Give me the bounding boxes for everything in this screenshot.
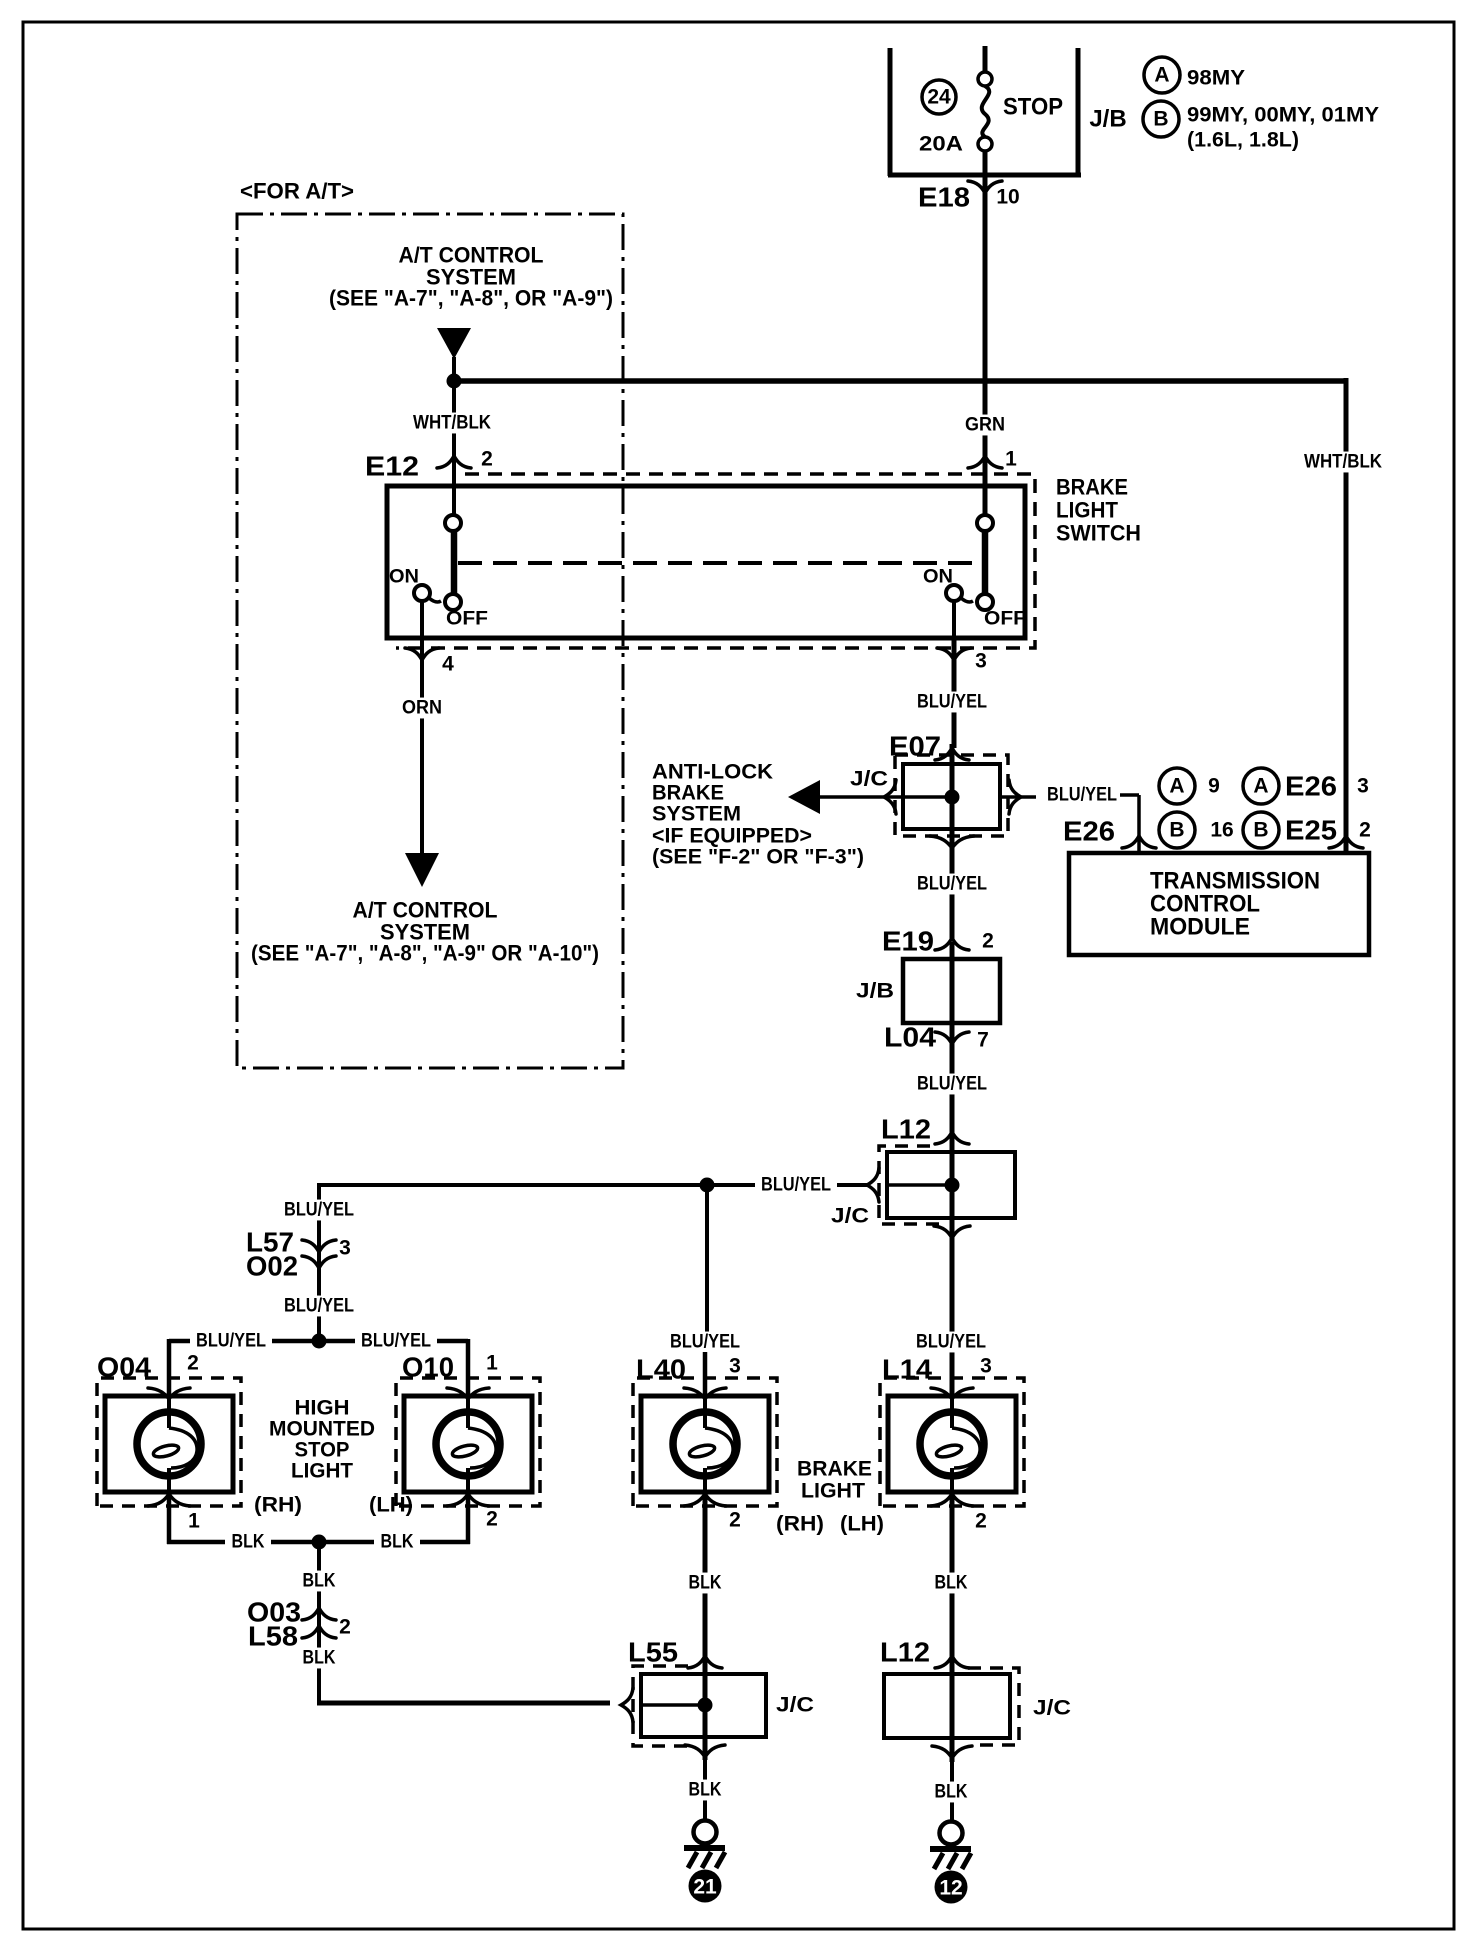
label BLK O10 — [374, 1532, 420, 1553]
wire L55 to ground — [703, 1760, 707, 1822]
connector TCM pin A9 B16 — [1122, 836, 1156, 848]
switch left pole ON contact — [414, 585, 430, 601]
svg-text:BLU/YEL: BLU/YEL — [284, 1200, 354, 1221]
junction connector E07 box — [903, 764, 1000, 829]
svg-text:MOUNTED: MOUNTED — [269, 1418, 375, 1441]
svg-text:BLU/YEL: BLU/YEL — [670, 1332, 740, 1353]
svg-text:BLK: BLK — [689, 1780, 722, 1801]
connector E12 pin 1 — [968, 456, 1002, 468]
wire L12 to ground 12 — [950, 1762, 954, 1823]
svg-text:SWITCH: SWITCH — [1056, 521, 1141, 546]
svg-text:3: 3 — [729, 1355, 741, 1378]
switch right pole lever — [982, 531, 989, 595]
label ORN — [397, 698, 447, 719]
junction block J/B box — [903, 959, 1000, 1023]
wire fuse feed — [983, 46, 988, 72]
svg-text:BLU/YEL: BLU/YEL — [761, 1175, 831, 1196]
connector O04 pin 1 — [148, 1494, 190, 1506]
svg-text:STOP: STOP — [295, 1439, 350, 1462]
connector O10 pin 2 — [447, 1494, 489, 1506]
svg-text:2: 2 — [187, 1352, 199, 1375]
svg-text:<FOR A/T>: <FOR A/T> — [240, 179, 354, 204]
lamp O10 high mounted stop light LH — [404, 1396, 532, 1492]
node L12 junction dot — [945, 1178, 960, 1193]
junction connector L12 bottom box — [884, 1674, 1010, 1738]
wire L55 horizontal stub — [641, 1703, 705, 1707]
svg-text:16: 16 — [1210, 819, 1233, 842]
wire junction to right corner — [454, 378, 1348, 384]
svg-text:2: 2 — [975, 1510, 987, 1533]
legend circled A E26 — [1243, 768, 1279, 804]
label BLK L40 — [682, 1573, 728, 1594]
connector E18 pin 10 — [968, 181, 1002, 193]
junction block J/B fuse box — [888, 48, 893, 176]
wire through J/B — [950, 942, 955, 1044]
svg-text:3: 3 — [980, 1355, 992, 1378]
node HMSL junction dot — [312, 1334, 327, 1349]
svg-text:20A: 20A — [919, 133, 963, 156]
svg-text:WHT/BLK: WHT/BLK — [413, 413, 491, 434]
svg-text:L14: L14 — [882, 1354, 932, 1385]
wire ORN — [420, 638, 424, 856]
svg-text:(RH): (RH) — [254, 1494, 302, 1517]
svg-text:4: 4 — [442, 653, 454, 676]
wire drop to L57 — [317, 1183, 321, 1341]
svg-text:(RH): (RH) — [776, 1513, 824, 1536]
connector E07 pin bottom — [930, 836, 974, 848]
svg-text:99MY, 00MY, 01MY: 99MY, 00MY, 01MY — [1187, 104, 1379, 127]
wire drop to O10 — [466, 1339, 471, 1398]
svg-text:3: 3 — [339, 1237, 351, 1260]
svg-text:L40: L40 — [636, 1354, 686, 1385]
connector E07 pin top — [935, 748, 969, 760]
connector E19 pin 2 — [935, 938, 969, 950]
label BLU/YEL 6 — [278, 1296, 360, 1317]
svg-text:L12: L12 — [881, 1114, 931, 1145]
svg-text:3: 3 — [975, 650, 987, 673]
label BLU/YEL O10 — [355, 1331, 437, 1352]
svg-text:2: 2 — [339, 1616, 351, 1639]
svg-text:E18: E18 — [918, 182, 970, 213]
wire BLU/YEL distribution — [319, 1183, 868, 1187]
ground point 21 — [689, 1870, 722, 1903]
junction connector L12 dashed outline — [879, 1146, 940, 1224]
label BLU/YEL O04 — [190, 1331, 272, 1352]
svg-text:7: 7 — [977, 1029, 989, 1052]
svg-text:10: 10 — [996, 186, 1019, 209]
wire drop to O04 — [167, 1339, 172, 1398]
junction connector L55 box — [641, 1674, 766, 1737]
lamp O04 high mounted stop light RH — [105, 1396, 233, 1492]
svg-text:BLK: BLK — [303, 1648, 336, 1669]
wire O04 to BLK junction — [167, 1492, 172, 1544]
svg-text:J/B: J/B — [856, 980, 894, 1003]
svg-text:ORN: ORN — [402, 698, 442, 719]
svg-text:1: 1 — [188, 1510, 200, 1533]
svg-text:98MY: 98MY — [1187, 67, 1245, 90]
svg-text:BRAKE: BRAKE — [797, 1458, 872, 1481]
svg-text:OFF: OFF — [446, 609, 488, 630]
label BLU/YEL 3 — [911, 1074, 993, 1095]
svg-text:LIGHT: LIGHT — [1056, 498, 1119, 523]
connector TCM pin 2/3 — [1329, 836, 1363, 848]
wire BLK junction to O03 — [317, 1542, 321, 1705]
connector L04 pin 7 — [935, 1032, 969, 1044]
connector O10 pin 1 — [447, 1388, 489, 1399]
label BLU/YEL L40 — [664, 1332, 746, 1353]
ground point 12 — [935, 1871, 968, 1904]
svg-text:L55: L55 — [628, 1637, 678, 1668]
svg-text:24: 24 — [927, 86, 951, 109]
legend circled B 16 — [1159, 812, 1195, 848]
connector E12 pin 2 — [437, 456, 471, 468]
legend circled B E25 — [1243, 812, 1279, 848]
svg-text:ON: ON — [389, 567, 419, 588]
svg-text:1: 1 — [1005, 448, 1017, 471]
junction connector L12 box — [887, 1152, 1015, 1218]
ground symbol 21 — [694, 1821, 717, 1844]
legend circled A 98MY — [1144, 57, 1180, 93]
svg-text:E07: E07 — [889, 731, 941, 762]
svg-text:J/C: J/C — [1033, 1697, 1071, 1720]
svg-text:1: 1 — [486, 1352, 498, 1375]
svg-text:2: 2 — [486, 1508, 498, 1531]
svg-text:E19: E19 — [882, 926, 934, 957]
label BLK L14 — [928, 1573, 974, 1594]
svg-text:21: 21 — [693, 1876, 717, 1899]
svg-text:L12: L12 — [880, 1637, 930, 1668]
svg-text:J/C: J/C — [831, 1205, 869, 1228]
brake light switch dashed outline — [396, 474, 1035, 648]
label BLU/YEL 5 — [278, 1200, 360, 1221]
svg-text:BLK: BLK — [232, 1532, 265, 1553]
wire junction down to E12 pin 2 — [452, 381, 456, 516]
arrow from A/T control system — [437, 328, 471, 359]
svg-text:GRN: GRN — [965, 415, 1005, 436]
wire ON right to pin 3 — [952, 601, 956, 640]
svg-text:HIGH: HIGH — [295, 1397, 350, 1420]
svg-text:BLU/YEL: BLU/YEL — [917, 874, 987, 895]
svg-text:O02: O02 — [246, 1251, 298, 1282]
switch right pole ON contact — [946, 585, 962, 601]
svg-text:2: 2 — [982, 930, 994, 953]
wire ON left to pin 4 — [420, 601, 424, 640]
svg-text:A: A — [1154, 64, 1169, 87]
svg-text:A: A — [1169, 775, 1184, 798]
svg-text:2: 2 — [481, 448, 493, 471]
svg-text:ANTI-LOCK: ANTI-LOCK — [652, 761, 773, 784]
connector L12 bottom pin top — [935, 1656, 969, 1668]
label WHT/BLK right — [1299, 452, 1387, 473]
switch right pole contact top — [977, 515, 993, 531]
wire L40 to L55 — [703, 1492, 708, 1660]
svg-text:(LH): (LH) — [840, 1513, 884, 1536]
switch left pole lever — [451, 531, 458, 595]
svg-text:B: B — [1169, 819, 1184, 842]
label BLU/YEL 2 — [911, 874, 993, 895]
svg-text:BRAKE: BRAKE — [652, 782, 724, 805]
wire BLK horizontal to L55 — [317, 1701, 610, 1706]
wire BLU/YEL to TCM — [1120, 793, 1139, 797]
connector E12 pin 4 — [420, 638, 424, 648]
svg-text:E25: E25 — [1285, 815, 1337, 846]
svg-text:2: 2 — [1359, 819, 1371, 842]
label BLK ground 12 — [928, 1782, 974, 1803]
svg-text:12: 12 — [939, 1877, 962, 1900]
arrow to anti-lock brake system — [788, 780, 820, 814]
svg-text:STOP: STOP — [1003, 94, 1063, 121]
svg-text:BLK: BLK — [689, 1573, 722, 1594]
brake light switch box — [387, 486, 1025, 638]
switch right pole OFF contact — [977, 594, 993, 610]
svg-text:LIGHT: LIGHT — [801, 1480, 865, 1503]
svg-text:L58: L58 — [248, 1621, 298, 1652]
arrow to A/T control system — [405, 853, 439, 887]
wire through L12 vertical — [950, 1136, 955, 1240]
node BLK junction dot — [312, 1535, 327, 1550]
switch left pole contact top — [445, 515, 461, 531]
connector L14 pin 3 — [931, 1388, 973, 1399]
svg-text:BRAKE: BRAKE — [1056, 475, 1128, 500]
connector L12 bottom pin bottom — [932, 1746, 972, 1758]
connector L57/O02 pin 3 — [302, 1240, 336, 1252]
wire through E07 vertical — [950, 744, 955, 849]
wire E07 horizontal — [820, 795, 952, 799]
wire WHT/BLK right drop — [1344, 378, 1349, 853]
svg-text:2: 2 — [729, 1509, 741, 1532]
wire L12 to L14 — [950, 1240, 955, 1398]
label BLU/YEL L14 — [910, 1332, 992, 1353]
legend circled A 9 — [1159, 768, 1195, 804]
svg-text:J/C: J/C — [776, 1694, 814, 1717]
svg-text:BLU/YEL: BLU/YEL — [1047, 785, 1117, 806]
svg-text:ON: ON — [923, 567, 953, 588]
connector O03/L58 pin 2 — [302, 1608, 336, 1620]
label BLK 1 — [296, 1571, 342, 1592]
connector L55 left terminal — [621, 1688, 633, 1722]
wire BLU/YEL L04 to L12 — [950, 1044, 955, 1136]
svg-text:B: B — [1253, 819, 1268, 842]
connector E07 right terminal — [1009, 780, 1021, 814]
connector E07 left terminal — [884, 780, 896, 814]
legend circled B 99MY — [1143, 101, 1179, 137]
node E07 junction dot — [945, 790, 960, 805]
svg-text:BLU/YEL: BLU/YEL — [917, 692, 987, 713]
connector L12 pin top — [935, 1132, 969, 1144]
connector L12 pin bottom — [934, 1226, 970, 1238]
svg-text:OFF: OFF — [984, 609, 1026, 630]
svg-text:MODULE: MODULE — [1150, 914, 1250, 941]
svg-text:BLK: BLK — [935, 1782, 968, 1803]
wire arrow to junction — [452, 357, 456, 382]
label BLK 2 — [296, 1648, 342, 1669]
node junction WHT/BLK — [447, 374, 462, 389]
svg-text:(SEE "A-7", "A-8", OR "A-9"): (SEE "A-7", "A-8", OR "A-9") — [329, 286, 613, 311]
wire HMSL horizontal — [169, 1339, 319, 1344]
fuse STOP 20A symbol — [978, 72, 992, 86]
node junction to L40 — [700, 1178, 715, 1193]
svg-text:BLK: BLK — [303, 1571, 336, 1592]
svg-text:(SEE "F-2" OR "F-3"): (SEE "F-2" OR "F-3") — [652, 846, 864, 869]
svg-text:E12: E12 — [365, 451, 419, 482]
wire through L55 vertical — [703, 1660, 708, 1760]
connector L12 left terminal — [867, 1168, 879, 1202]
wire O10 to BLK junction — [466, 1492, 471, 1544]
svg-text:(LH): (LH) — [369, 1494, 413, 1517]
connector L40 pin 3 — [684, 1388, 726, 1399]
svg-text:BLU/YEL: BLU/YEL — [196, 1331, 266, 1352]
svg-text:L04: L04 — [884, 1022, 936, 1053]
junction connector L12 bottom dashed outline — [968, 1668, 1019, 1745]
wire L14 to L12 jc — [950, 1492, 955, 1660]
ground symbol 12 — [940, 1822, 963, 1845]
svg-text:SYSTEM: SYSTEM — [652, 803, 741, 826]
svg-text:J/C: J/C — [850, 768, 888, 791]
fuse 24 circled number — [922, 80, 956, 114]
svg-text:WHT/BLK: WHT/BLK — [1304, 452, 1382, 473]
wire L12 horizontal branch — [887, 1183, 952, 1187]
svg-text:E26: E26 — [1063, 816, 1115, 847]
transmission control module box — [1069, 853, 1369, 955]
svg-text:<IF EQUIPPED>: <IF EQUIPPED> — [652, 825, 812, 848]
wire BLU/YEL switch to E07 — [952, 638, 957, 748]
svg-text:B: B — [1153, 108, 1168, 131]
label WHT/BLK left — [408, 413, 496, 434]
svg-text:3: 3 — [1357, 775, 1369, 798]
wire through L12 bottom — [950, 1660, 955, 1762]
node L55 junction dot — [698, 1698, 713, 1713]
junction connector E07 dashed outline — [895, 755, 1008, 836]
lamp L40 brake light RH — [641, 1396, 769, 1492]
label BLU/YEL 1 — [911, 692, 993, 713]
wire to L40 — [703, 1352, 708, 1398]
label BLK L55 ground — [682, 1780, 728, 1801]
svg-text:(1.6L, 1.8L): (1.6L, 1.8L) — [1187, 129, 1299, 152]
connector L55 pin top — [688, 1656, 722, 1668]
svg-text:9: 9 — [1208, 775, 1220, 798]
wire BLU/YEL E07 to E19 — [950, 848, 955, 940]
label GRN — [960, 415, 1010, 436]
label BLK O04 — [225, 1532, 271, 1553]
svg-text:J/B: J/B — [1089, 106, 1126, 133]
wire drop to L40 — [705, 1185, 709, 1340]
lamp L14 brake light LH — [888, 1396, 1016, 1492]
junction connector L55 dashed outline — [633, 1666, 694, 1746]
connector O04 pin 2 — [148, 1388, 190, 1399]
svg-text:BLU/YEL: BLU/YEL — [916, 1332, 986, 1353]
svg-text:LIGHT: LIGHT — [291, 1460, 353, 1483]
svg-text:E26: E26 — [1285, 771, 1337, 802]
connector L40 pin 2 — [684, 1494, 726, 1506]
svg-text:BLU/YEL: BLU/YEL — [917, 1074, 987, 1095]
connector L14 pin 2 — [931, 1494, 973, 1506]
wire fuse to E18 — [983, 151, 988, 175]
connector E12 pin 3 — [952, 638, 956, 648]
label BLU/YEL 4 — [755, 1175, 837, 1196]
svg-text:BLU/YEL: BLU/YEL — [284, 1296, 354, 1317]
connector L55 pin bottom — [685, 1745, 725, 1757]
svg-text:(SEE "A-7", "A-8", "A-9" OR "A: (SEE "A-7", "A-8", "A-9" OR "A-10") — [251, 941, 599, 966]
svg-text:BLK: BLK — [381, 1532, 414, 1553]
svg-text:BLK: BLK — [935, 1573, 968, 1594]
svg-text:A: A — [1253, 775, 1268, 798]
svg-text:BLU/YEL: BLU/YEL — [361, 1331, 431, 1352]
wire GRN fuse to brake light switch — [983, 175, 988, 516]
dash-dot boundary box FOR A/T — [237, 214, 623, 1068]
switch left pole OFF contact — [445, 594, 461, 610]
switch mechanical link dashed — [458, 561, 982, 565]
